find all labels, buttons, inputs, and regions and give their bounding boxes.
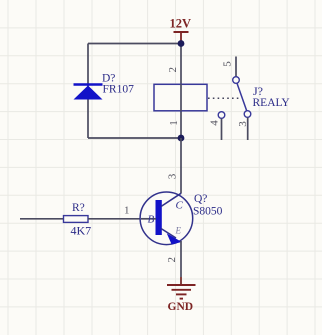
- svg-text:B: B: [148, 214, 155, 226]
- svg-text:FR107: FR107: [103, 84, 135, 96]
- power +12V label: [170, 17, 192, 31]
- svg-text:S8050: S8050: [193, 206, 223, 218]
- wire: main vertical from 12V node down through relay: [180, 44, 182, 139]
- power +12V bar symbol: [174, 32, 189, 44]
- svg-text:REALY: REALY: [253, 97, 291, 109]
- svg-text:Q?: Q?: [194, 193, 207, 205]
- svg-text:2: 2: [166, 257, 178, 263]
- switch pin 3 number: [237, 121, 249, 127]
- switch J? pin 5 stub: [235, 57, 237, 77]
- svg-text:E: E: [175, 225, 182, 235]
- transistor emitter pin 2 number: [166, 257, 178, 263]
- transistor emitter diagonal: [161, 229, 176, 239]
- switch pin 3 stub: [247, 118, 249, 141]
- svg-text:4K7: 4K7: [71, 224, 92, 238]
- transistor base wire into circle: [141, 218, 156, 220]
- resistor R? body: [64, 216, 89, 223]
- transistor base bar: [156, 200, 162, 235]
- svg-text:C: C: [176, 199, 184, 211]
- svg-text:4: 4: [208, 120, 220, 126]
- relay pin 1 number: [168, 120, 180, 126]
- svg-text:GND: GND: [168, 301, 194, 313]
- svg-text:1: 1: [124, 205, 130, 217]
- ground symbol: [167, 285, 196, 299]
- dotted link relay to switch: [208, 97, 240, 99]
- switch pin 4 number: [208, 120, 220, 126]
- wire: resistor to transistor base: [88, 218, 157, 220]
- svg-text:3: 3: [237, 121, 249, 127]
- switch pin 3 contact circle: [244, 111, 251, 118]
- wire through relay: [180, 84, 182, 111]
- svg-text:12V: 12V: [170, 17, 192, 31]
- transistor Q? body circle: [140, 192, 193, 245]
- switch blade: [237, 83, 247, 111]
- switch pin 4 contact circle: [218, 112, 225, 119]
- relay coil K1 body: [154, 84, 207, 111]
- transistor emitter arrow: [167, 233, 182, 244]
- node B junction below relay: [178, 135, 185, 142]
- svg-text:1: 1: [168, 120, 180, 126]
- switch pin 5 contact circle: [233, 77, 240, 84]
- svg-text:R?: R?: [72, 202, 85, 214]
- node A junction at 12V: [178, 40, 185, 47]
- transistor collector pin 3 number: [166, 173, 178, 179]
- transistor collector diagonal: [161, 193, 181, 206]
- wire: top horizontal from diode branch to main node: [88, 43, 181, 45]
- diode D1 symbol: [74, 85, 103, 100]
- switch pin 5 number: [222, 61, 234, 67]
- svg-text:2: 2: [167, 67, 179, 73]
- relay pin 2 number: [167, 67, 179, 73]
- wire: diode branch left vertical: [87, 44, 89, 139]
- resistor R? lead wire left: [20, 218, 64, 220]
- switch pin 4 stub: [221, 119, 223, 141]
- wire: node B down to transistor collector: [180, 138, 182, 194]
- wire: emitter down to ground: [180, 241, 182, 277]
- svg-text:5: 5: [222, 61, 234, 67]
- svg-text:3: 3: [166, 173, 178, 179]
- wire: bottom horizontal of diode branch: [88, 137, 181, 139]
